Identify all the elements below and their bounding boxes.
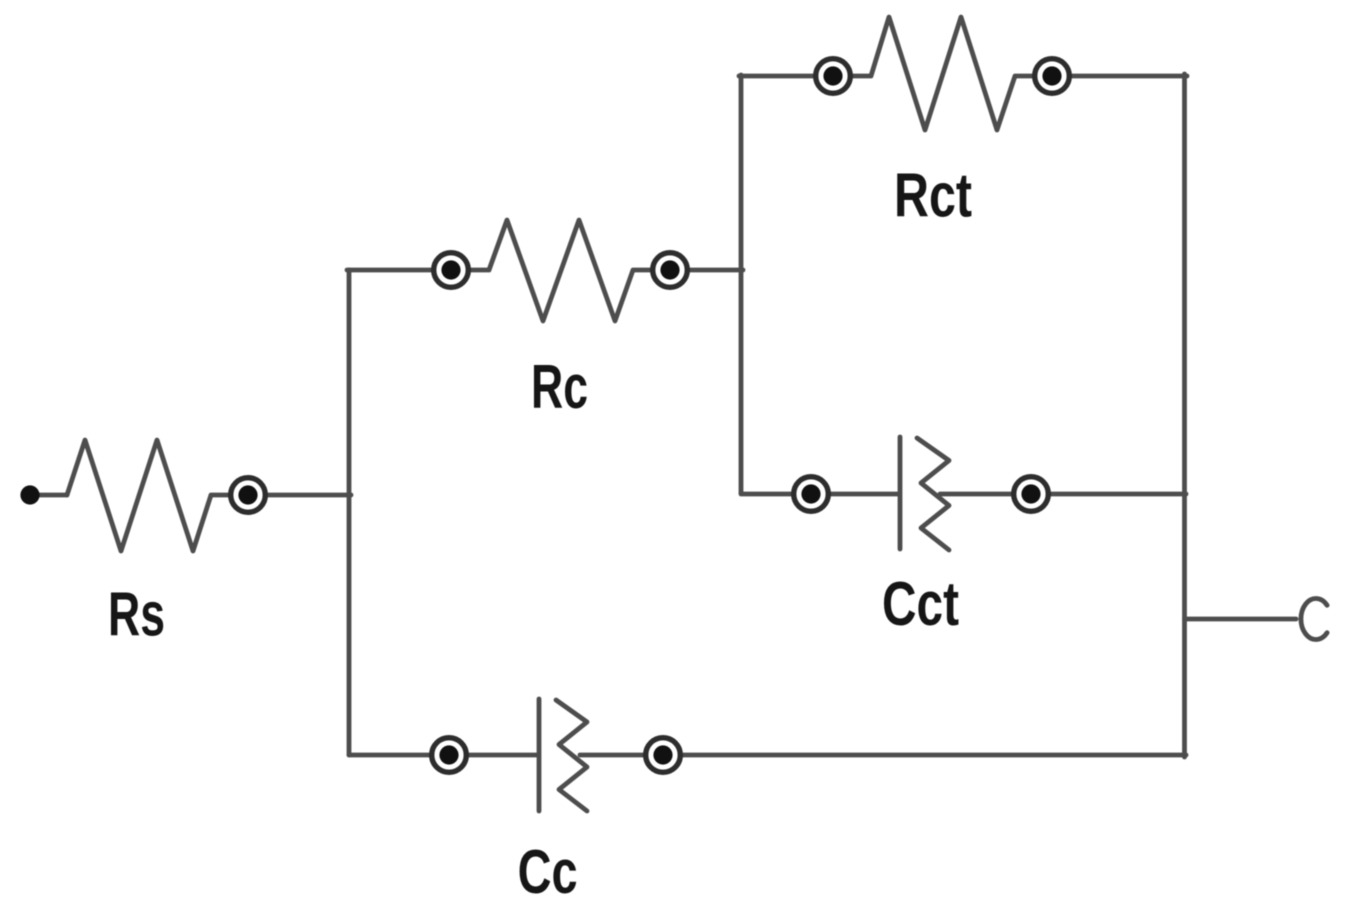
wire Cc to right rail	[580, 753, 1186, 758]
terminal open circle	[1301, 598, 1327, 639]
wire Rct to right rail	[1052, 74, 1187, 79]
capacitor Cct zigzag plate	[917, 438, 949, 550]
resistor Rc	[451, 220, 670, 321]
capacitor Cc left plate	[537, 699, 542, 811]
svg-text:Rct: Rct	[894, 162, 972, 231]
node Cct right	[1014, 477, 1049, 512]
resistor Rct	[833, 17, 1052, 130]
svg-text:Rc: Rc	[531, 353, 588, 422]
capacitor Cc zigzag plate	[556, 700, 587, 811]
input terminal dot	[20, 485, 39, 504]
node Rc left	[434, 253, 469, 288]
wire Cc node to plate	[449, 753, 537, 758]
wire Cct node to plate	[811, 492, 898, 497]
resistor Rs	[67, 440, 230, 551]
node Rct right	[1035, 59, 1070, 94]
wire Rc to middle rail	[670, 268, 743, 273]
svg-text:Cct: Cct	[882, 570, 959, 639]
wire right rail	[1182, 74, 1187, 757]
wire middle rail	[739, 75, 744, 493]
wire node1 to left rail	[248, 493, 351, 498]
svg-text:Cc: Cc	[518, 838, 578, 907]
wire left rail	[347, 270, 352, 755]
wire Cct to right rail	[940, 492, 1186, 497]
wire Cct branch left	[741, 492, 811, 497]
node Rct left	[816, 59, 851, 94]
wire output stub	[1185, 617, 1297, 622]
wire Rc branch left	[347, 268, 451, 273]
node Cc left	[432, 738, 467, 773]
node Cc right	[646, 738, 681, 773]
wire input lead	[34, 493, 67, 498]
capacitor Cct left plate	[898, 437, 903, 549]
node after Rs	[231, 478, 266, 513]
node Cct left	[794, 477, 829, 512]
node Rc right	[653, 253, 688, 288]
wire Rct branch left	[739, 74, 833, 79]
wire Cc branch left	[349, 753, 449, 758]
svg-text:Rs: Rs	[108, 581, 165, 650]
